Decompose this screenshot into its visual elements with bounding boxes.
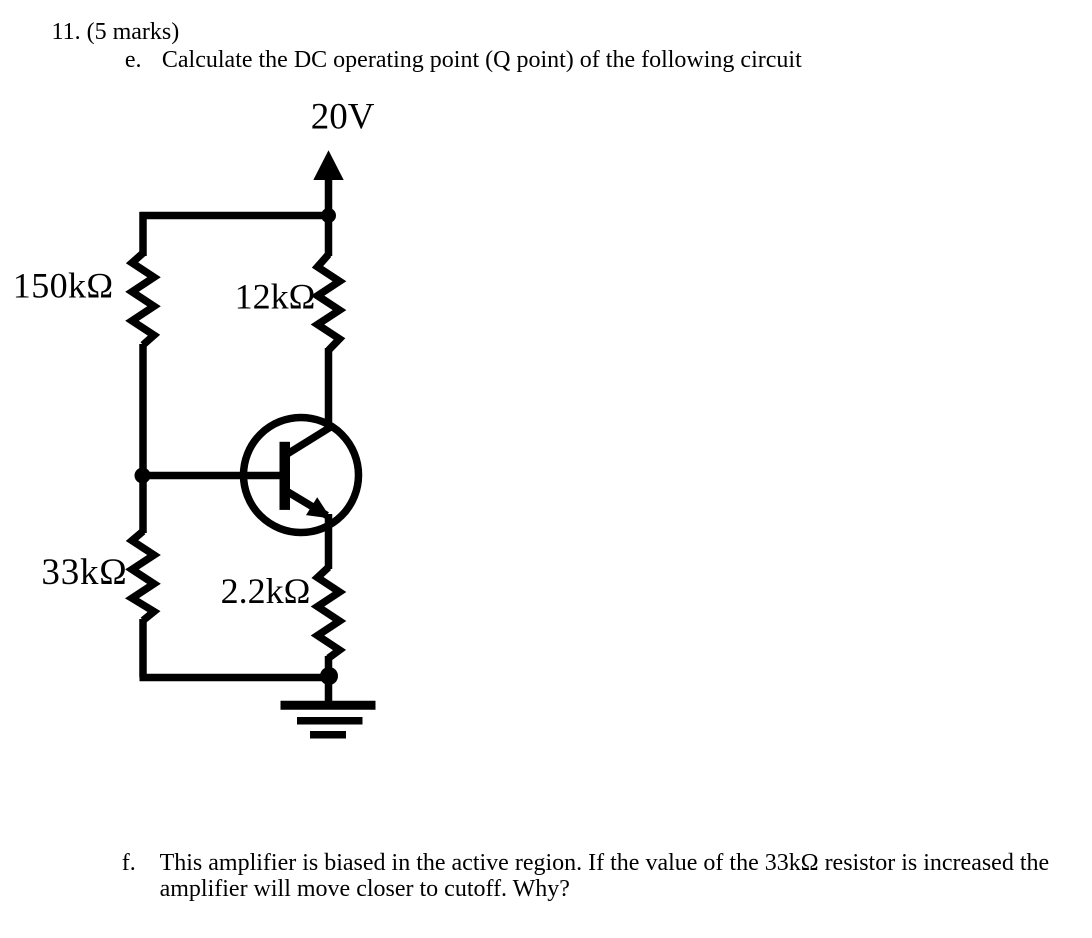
resistor R2 33kOhm zigzag (132, 531, 154, 620)
transistor Q1 emitter arrowhead (306, 497, 331, 518)
transistor Q1 collector diagonal (288, 427, 332, 454)
svg-text:12kΩ: 12kΩ (235, 276, 316, 316)
power arrow 20V (313, 150, 343, 180)
node VCC junction dot (321, 208, 336, 223)
item f label (122, 850, 136, 876)
svg-text:2.2kΩ: 2.2kΩ (221, 571, 311, 611)
wire collector rail (325, 348, 333, 429)
resistor R4 2.2kOhm zigzag (318, 567, 340, 658)
heading line 11. (5 marks) (52, 19, 180, 45)
ground bar 3 (310, 731, 346, 739)
svg-text:150kΩ: 150kΩ (13, 265, 114, 305)
resistor R1 150kOhm zigzag (132, 253, 154, 345)
node emitter junction dot (320, 667, 338, 685)
wire left rail middle (139, 344, 147, 533)
wire bottom horizontal (140, 674, 330, 682)
node base junction dot (135, 468, 151, 484)
wire right rail upper (325, 216, 333, 257)
wire emitter rail (325, 514, 333, 569)
wire left rail upper (139, 212, 147, 256)
svg-text:33kΩ: 33kΩ (41, 552, 127, 593)
transistor Q1 emitter diagonal (288, 492, 327, 516)
ground bar 2 (297, 717, 363, 725)
item f text (160, 850, 1050, 903)
item e label (125, 47, 142, 73)
ground bar 1 (281, 701, 376, 710)
wire arrow stem (325, 178, 333, 216)
transistor Q1 base bar (280, 442, 291, 510)
resistor R3 12kOhm zigzag (318, 254, 340, 350)
wire top horizontal (140, 212, 329, 220)
wire base horizontal (143, 472, 281, 480)
svg-text:20V: 20V (311, 97, 375, 138)
item e text (162, 47, 802, 73)
wire left rail lower (139, 619, 147, 678)
transistor Q1 body circle (244, 418, 359, 533)
wire emitter to ground (325, 656, 333, 702)
